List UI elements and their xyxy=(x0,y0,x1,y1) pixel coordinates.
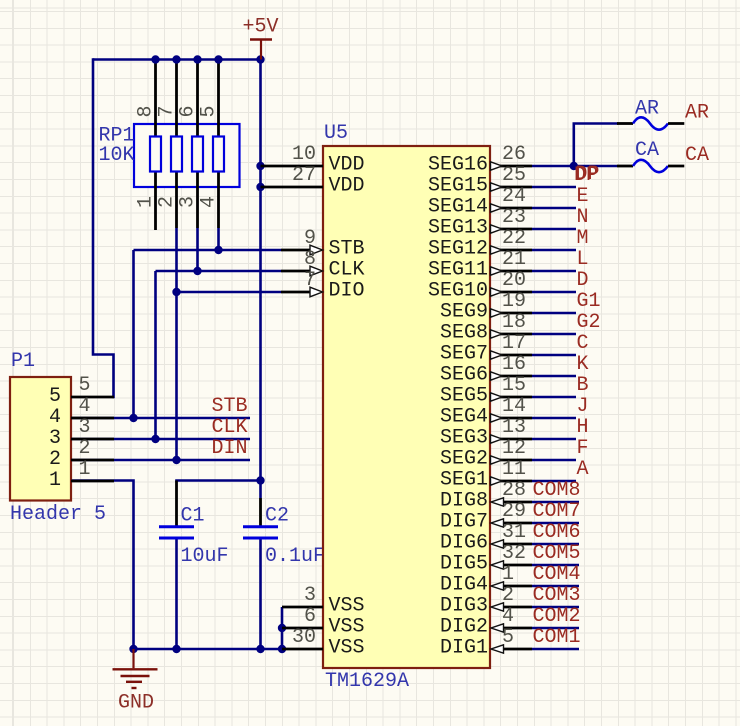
svg-text:CLK: CLK xyxy=(212,416,248,439)
U5 pin 19 SEG9 xyxy=(490,309,576,317)
U5 pin 9 name STB xyxy=(329,238,365,261)
U5 pin name SEG16 xyxy=(428,154,488,177)
svg-text:4: 4 xyxy=(198,196,221,208)
svg-text:SEG7: SEG7 xyxy=(440,343,488,366)
U5 pin 30 VSS xyxy=(282,648,323,651)
svg-text:2: 2 xyxy=(156,196,179,208)
net label G2 xyxy=(577,311,601,334)
junction (176.5,460) xyxy=(172,456,180,464)
svg-text:23: 23 xyxy=(502,206,526,229)
svg-text:AR: AR xyxy=(685,102,709,125)
U5 pin 7 number xyxy=(304,269,316,292)
svg-text:L: L xyxy=(577,248,589,271)
U5 pin 1 number xyxy=(502,563,514,586)
net label COM2 xyxy=(533,605,581,628)
svg-text:2: 2 xyxy=(79,437,91,460)
net label COM7 xyxy=(533,500,581,523)
wire C2 top lead xyxy=(259,498,262,526)
P1 pin 5 xyxy=(71,396,114,399)
svg-text:4: 4 xyxy=(79,395,91,418)
resistor element R3 of RP1 xyxy=(192,137,203,172)
U5 pin 26 number xyxy=(502,143,526,166)
svg-text:8: 8 xyxy=(304,248,316,271)
P1 pin 2 name xyxy=(49,448,61,471)
svg-text:15: 15 xyxy=(502,374,526,397)
RP1 pin 6 (top) / pin 3 (bottom) lead xyxy=(196,60,199,229)
U5 pin name SEG15 xyxy=(428,175,488,198)
P1 pin 1 name xyxy=(49,469,61,492)
net label L xyxy=(577,248,589,271)
IC U5 body xyxy=(323,146,490,668)
wire CLK vertical to P1.3 xyxy=(154,271,157,439)
svg-text:SEG6: SEG6 xyxy=(440,364,488,387)
svg-text:7: 7 xyxy=(304,269,316,292)
junction (260.5,59.5) xyxy=(256,55,264,63)
svg-text:1: 1 xyxy=(79,458,91,481)
net label G1 xyxy=(577,290,601,313)
U5 pin 30 name VSS xyxy=(329,637,365,660)
U5 pin 14 SEG4 xyxy=(490,414,576,422)
svg-text:+5V: +5V xyxy=(243,16,279,39)
svg-text:SEG4: SEG4 xyxy=(440,406,488,429)
U5 pin 23 SEG13 xyxy=(490,225,576,233)
svg-text:SEG2: SEG2 xyxy=(440,448,488,471)
svg-text:3: 3 xyxy=(177,196,200,208)
U5 pin 31 DIG6 xyxy=(491,540,579,548)
U5 pin 25 SEG15 xyxy=(490,183,576,191)
P1 pin 1 number xyxy=(79,458,91,481)
U5 pin 7 name DIO xyxy=(329,280,365,303)
svg-text:1: 1 xyxy=(135,196,158,208)
RP1 pin number 7 xyxy=(156,105,179,117)
U5 pin 8 CLK xyxy=(281,266,323,276)
junction (573.8,166) xyxy=(570,162,578,170)
net label C xyxy=(577,332,589,355)
U5 pin 6 number xyxy=(304,605,316,628)
svg-text:Header 5: Header 5 xyxy=(10,503,106,526)
svg-text:DIO: DIO xyxy=(329,280,365,303)
junction (133.5,418) xyxy=(129,414,137,422)
RP1 value 10K xyxy=(99,144,135,167)
U5 pin 10 number xyxy=(292,143,316,166)
svg-text:F: F xyxy=(577,437,589,460)
svg-text:COM3: COM3 xyxy=(533,584,581,607)
svg-text:SEG16: SEG16 xyxy=(428,154,488,177)
svg-text:C1: C1 xyxy=(181,505,205,528)
wire DIN net from P1.2 xyxy=(71,459,250,462)
svg-text:21: 21 xyxy=(502,248,526,271)
U5 pin 27 VDD xyxy=(261,186,324,189)
junction (155.5,439) xyxy=(151,435,159,443)
U5 pin 2 number xyxy=(502,584,514,607)
svg-text:7: 7 xyxy=(156,105,179,117)
U5 pin name SEG1 xyxy=(440,469,488,492)
svg-text:SEG9: SEG9 xyxy=(440,301,488,324)
svg-text:AR: AR xyxy=(635,98,659,121)
U5 pin 11 number xyxy=(502,458,526,481)
U5 pin 4 DIG2 xyxy=(491,624,579,632)
U5 pin 9 STB xyxy=(281,245,323,255)
svg-text:16: 16 xyxy=(502,353,526,376)
U5 pin 8 name CLK xyxy=(329,259,365,282)
P1 pin 3 xyxy=(71,438,114,441)
svg-text:D: D xyxy=(577,269,589,292)
svg-text:STB: STB xyxy=(212,395,248,418)
U5 pin 12 SEG2 xyxy=(490,456,576,464)
U5 pin 28 number xyxy=(502,479,526,502)
U5 pin 15 number xyxy=(502,374,526,397)
wire RP1.3 vertical down to CLK xyxy=(196,228,199,271)
net label A xyxy=(577,458,589,481)
RP1 pin number 6 xyxy=(177,105,200,117)
wire VSS vertical xyxy=(281,607,284,649)
U5 pin 32 DIG5 xyxy=(491,561,579,569)
U5 pin 22 number xyxy=(502,227,526,250)
svg-text:A: A xyxy=(577,458,589,481)
svg-text:10: 10 xyxy=(292,143,316,166)
wire CA row lead xyxy=(574,165,617,168)
svg-text:18: 18 xyxy=(502,311,526,334)
wire CLK horizontal (U5.8) xyxy=(156,270,282,273)
svg-text:VDD: VDD xyxy=(329,154,365,177)
U5 pin name SEG5 xyxy=(440,385,488,408)
U5 pin 24 SEG14 xyxy=(490,204,576,212)
svg-text:N: N xyxy=(577,206,589,229)
resistor element R2 of RP1 xyxy=(171,137,182,172)
svg-text:DP: DP xyxy=(576,163,600,186)
U5 pin name SEG14 xyxy=(428,196,488,219)
U5 pin 13 number xyxy=(502,416,526,439)
svg-text:C2: C2 xyxy=(265,505,289,528)
U5 pin 16 SEG6 xyxy=(490,372,576,380)
net label DP xyxy=(576,163,600,186)
svg-text:SEG5: SEG5 xyxy=(440,385,488,408)
U5 pin 17 number xyxy=(502,332,526,355)
svg-text:SEG3: SEG3 xyxy=(440,427,488,450)
junction (176.5,59.5) xyxy=(172,55,180,63)
svg-text:G1: G1 xyxy=(577,290,601,313)
svg-text:25: 25 xyxy=(502,164,526,187)
svg-text:J: J xyxy=(577,395,589,418)
svg-text:10K: 10K xyxy=(99,144,135,167)
svg-text:TM1629A: TM1629A xyxy=(325,670,409,693)
svg-text:20: 20 xyxy=(502,269,526,292)
U5 pin name SEG4 xyxy=(440,406,488,429)
net label N xyxy=(577,206,589,229)
wire SEG16 to coils xyxy=(532,165,574,168)
U5 pin 26 SEG16 xyxy=(490,162,532,170)
net label E xyxy=(577,185,589,208)
svg-text:14: 14 xyxy=(502,395,526,418)
svg-text:STB: STB xyxy=(329,238,365,261)
svg-text:DIG3: DIG3 xyxy=(440,595,488,618)
svg-text:COM2: COM2 xyxy=(533,605,581,628)
U5 pin 22 SEG12 xyxy=(490,246,576,254)
svg-text:24: 24 xyxy=(502,185,526,208)
svg-text:2: 2 xyxy=(49,448,61,471)
ground GND xyxy=(113,649,158,688)
junction (176.5,292) xyxy=(172,288,180,296)
U5 designator xyxy=(324,122,348,145)
svg-text:6: 6 xyxy=(304,605,316,628)
U5 pin name SEG3 xyxy=(440,427,488,450)
svg-text:0.1uF: 0.1uF xyxy=(265,545,325,568)
svg-text:DIG4: DIG4 xyxy=(440,574,488,597)
+5V power port xyxy=(250,40,272,60)
svg-text:1: 1 xyxy=(49,469,61,492)
svg-text:DIG7: DIG7 xyxy=(440,511,488,534)
wire +5V top bus xyxy=(93,58,261,61)
P1 pin 1 xyxy=(71,480,114,483)
U5 pin 13 SEG3 xyxy=(490,435,576,443)
C1 value 10uF xyxy=(181,545,229,568)
U5 pin 20 number xyxy=(502,269,526,292)
wire C1 top lead xyxy=(175,481,178,527)
U5 pin name SEG11 xyxy=(428,259,488,282)
svg-text:DIG1: DIG1 xyxy=(440,637,488,660)
U5 pin 21 number xyxy=(502,248,526,271)
junction (133.5,649) xyxy=(129,645,137,653)
resistor element R4 of RP1 xyxy=(213,137,224,172)
svg-text:SEG13: SEG13 xyxy=(428,217,488,240)
svg-text:CA: CA xyxy=(685,144,709,167)
U5 pin 29 number xyxy=(502,500,526,523)
svg-text:E: E xyxy=(577,185,589,208)
wire RP1.2 vertical down to DIN xyxy=(175,228,178,460)
junction (260.5,480.5) xyxy=(256,476,264,484)
U5 pin 5 number xyxy=(502,626,514,649)
svg-text:H: H xyxy=(577,416,589,439)
U5 pin 25 number xyxy=(502,164,526,187)
svg-text:COM7: COM7 xyxy=(533,500,581,523)
capacitor C1 xyxy=(159,527,194,538)
U5 pin 2 DIG3 xyxy=(491,603,579,611)
svg-text:K: K xyxy=(577,353,589,376)
RP1 pin 7 (top) / pin 2 (bottom) lead xyxy=(175,60,178,229)
svg-text:10uF: 10uF xyxy=(181,545,229,568)
net label COM6 xyxy=(533,521,581,544)
svg-text:28: 28 xyxy=(502,479,526,502)
svg-text:COM4: COM4 xyxy=(533,563,581,586)
junction (282,628) xyxy=(278,624,286,632)
U5 pin name SEG6 xyxy=(440,364,488,387)
svg-text:3: 3 xyxy=(304,584,316,607)
wire STB vertical to P1.4 xyxy=(132,250,135,418)
junction (260.5,166) xyxy=(256,162,264,170)
net label COM4 xyxy=(533,563,581,586)
svg-text:5: 5 xyxy=(502,626,514,649)
U5 pin name SEG9 xyxy=(440,301,488,324)
AR designator xyxy=(635,98,659,121)
svg-text:26: 26 xyxy=(502,143,526,166)
svg-text:13: 13 xyxy=(502,416,526,439)
svg-text:17: 17 xyxy=(502,332,526,355)
P1 designator xyxy=(11,350,35,373)
U5 pin 32 number xyxy=(502,542,526,565)
net label COM1 xyxy=(533,626,581,649)
U5 pin 17 SEG7 xyxy=(490,351,576,359)
svg-text:9: 9 xyxy=(304,227,316,250)
resistor pack RP1 body xyxy=(134,124,240,187)
svg-text:12: 12 xyxy=(502,437,526,460)
svg-text:32: 32 xyxy=(502,542,526,565)
U5 pin 27 number xyxy=(292,164,316,187)
P1 pin 4 xyxy=(71,417,114,420)
svg-text:4: 4 xyxy=(49,406,61,429)
wire +5V rail (x=260.5) down to caps xyxy=(259,58,262,498)
wire CLK net from P1.3 xyxy=(71,438,250,441)
RP1 pin number 3 xyxy=(177,196,200,208)
U5 pin 27 name VDD xyxy=(329,175,365,198)
svg-text:DIN: DIN xyxy=(212,437,248,460)
net label STB xyxy=(212,395,248,418)
U5 pin name DIG8 xyxy=(440,490,488,513)
C1 designator xyxy=(181,505,205,528)
U5 pin 24 number xyxy=(502,185,526,208)
svg-text:29: 29 xyxy=(502,500,526,523)
svg-text:P1: P1 xyxy=(11,350,35,373)
svg-text:DIG2: DIG2 xyxy=(440,616,488,639)
svg-text:U5: U5 xyxy=(324,122,348,145)
U5 pin 29 DIG7 xyxy=(491,519,579,527)
wire cap top feed C1-C2 xyxy=(177,479,261,482)
U5 pin name SEG7 xyxy=(440,343,488,366)
svg-text:3: 3 xyxy=(49,427,61,450)
svg-text:5: 5 xyxy=(79,374,91,397)
U5 pin name SEG10 xyxy=(428,280,488,303)
P1 pin 2 number xyxy=(79,437,91,460)
wire STB net from P1.4 xyxy=(71,417,250,420)
svg-text:DIG6: DIG6 xyxy=(440,532,488,555)
svg-text:VSS: VSS xyxy=(329,595,365,618)
U5 pin name DIG1 xyxy=(440,637,488,660)
wire AR branch vertical xyxy=(574,124,617,167)
U5 pin 7 DIO xyxy=(281,287,323,297)
svg-text:31: 31 xyxy=(502,521,526,544)
svg-text:G2: G2 xyxy=(577,311,601,334)
net label AR xyxy=(685,102,709,125)
svg-text:6: 6 xyxy=(177,105,200,117)
svg-text:CA: CA xyxy=(635,139,659,162)
net label F xyxy=(577,437,589,460)
svg-text:COM1: COM1 xyxy=(533,626,581,649)
svg-text:VSS: VSS xyxy=(329,616,365,639)
U5 pin name DIG7 xyxy=(440,511,488,534)
svg-text:SEG14: SEG14 xyxy=(428,196,488,219)
U5 pin 21 SEG11 xyxy=(490,267,576,275)
svg-text:VSS: VSS xyxy=(329,637,365,660)
P1 pin 2 xyxy=(71,459,114,462)
RP1 pin number 8 xyxy=(135,105,158,117)
svg-text:DIG5: DIG5 xyxy=(440,553,488,576)
U5 pin 10 VDD xyxy=(261,165,324,168)
U5 pin name DIG3 xyxy=(440,595,488,618)
U5 pin 20 SEG10 xyxy=(490,288,576,296)
U5 pin 19 number xyxy=(502,290,526,313)
U5 pin 4 number xyxy=(502,605,514,628)
junction (176.5,649) xyxy=(172,645,180,653)
svg-text:1: 1 xyxy=(502,563,514,586)
U5 pin 6 VSS xyxy=(282,627,323,630)
U5 pin name SEG2 xyxy=(440,448,488,471)
C2 designator xyxy=(265,505,289,528)
svg-text:11: 11 xyxy=(502,458,526,481)
svg-text:GND: GND xyxy=(118,692,154,715)
svg-text:SEG12: SEG12 xyxy=(428,238,488,261)
svg-text:27: 27 xyxy=(292,164,316,187)
U5 pin name DIG5 xyxy=(440,553,488,576)
wire RP1.4 vertical down to STB xyxy=(217,228,220,250)
svg-text:8: 8 xyxy=(135,105,158,117)
U5 pin name SEG13 xyxy=(428,217,488,240)
svg-text:4: 4 xyxy=(502,605,514,628)
wire DIO horizontal (U5.7) xyxy=(177,291,282,294)
U5 pin 8 number xyxy=(304,248,316,271)
svg-text:C: C xyxy=(577,332,589,355)
U5 pin 28 DIG8 xyxy=(491,498,579,506)
U5 pin 23 number xyxy=(502,206,526,229)
connector P1 body xyxy=(10,377,71,501)
junction (218.5,250) xyxy=(214,246,222,254)
RP1 designator xyxy=(99,125,135,148)
svg-text:2: 2 xyxy=(502,584,514,607)
svg-text:SEG10: SEG10 xyxy=(428,280,488,303)
P1 pin 3 name xyxy=(49,427,61,450)
net label COM3 xyxy=(533,584,581,607)
RP1 pin number 4 xyxy=(198,196,221,208)
svg-text:SEG11: SEG11 xyxy=(428,259,488,282)
CA designator xyxy=(635,139,659,162)
wire C1 bottom lead xyxy=(175,539,178,650)
U5 pin 11 SEG1 xyxy=(490,477,576,485)
U5 pin 30 number xyxy=(292,626,316,649)
junction (282,649) xyxy=(278,645,286,653)
U5 pin 6 name VSS xyxy=(329,616,365,639)
net label J xyxy=(577,395,589,418)
U5 pin name SEG8 xyxy=(440,322,488,345)
U5 pin 5 DIG1 xyxy=(491,645,579,653)
U5 pin 9 number xyxy=(304,227,316,250)
+5V label xyxy=(243,16,279,39)
coil AR xyxy=(617,117,684,129)
resistor element R1 of RP1 xyxy=(150,137,161,172)
svg-text:30: 30 xyxy=(292,626,316,649)
svg-text:COM6: COM6 xyxy=(533,521,581,544)
svg-text:CLK: CLK xyxy=(329,259,365,282)
net label H xyxy=(577,416,589,439)
svg-text:5: 5 xyxy=(49,385,61,408)
RP1 pin number 5 xyxy=(198,105,221,117)
U5 pin 3 number xyxy=(304,584,316,607)
capacitor C2 xyxy=(243,527,278,538)
svg-text:DIG8: DIG8 xyxy=(440,490,488,513)
U5 pin 18 SEG8 xyxy=(490,330,576,338)
U5 pin 1 DIG4 xyxy=(491,582,579,590)
junction (155.5,59.5) xyxy=(151,55,159,63)
wire STB horizontal (U5.9) xyxy=(134,249,282,252)
net label DP xyxy=(574,164,598,187)
wire P1.1 to ground rail xyxy=(71,481,134,650)
U5 pin name DIG4 xyxy=(440,574,488,597)
U5 pin 10 name VDD xyxy=(329,154,365,177)
coil CA xyxy=(617,160,684,172)
svg-text:5: 5 xyxy=(198,105,221,117)
U5 pin 15 SEG5 xyxy=(490,393,576,401)
svg-text:B: B xyxy=(577,374,589,397)
net label COM5 xyxy=(533,542,581,565)
wire C2 bottom lead xyxy=(259,539,262,650)
U5 pin 12 number xyxy=(502,437,526,460)
